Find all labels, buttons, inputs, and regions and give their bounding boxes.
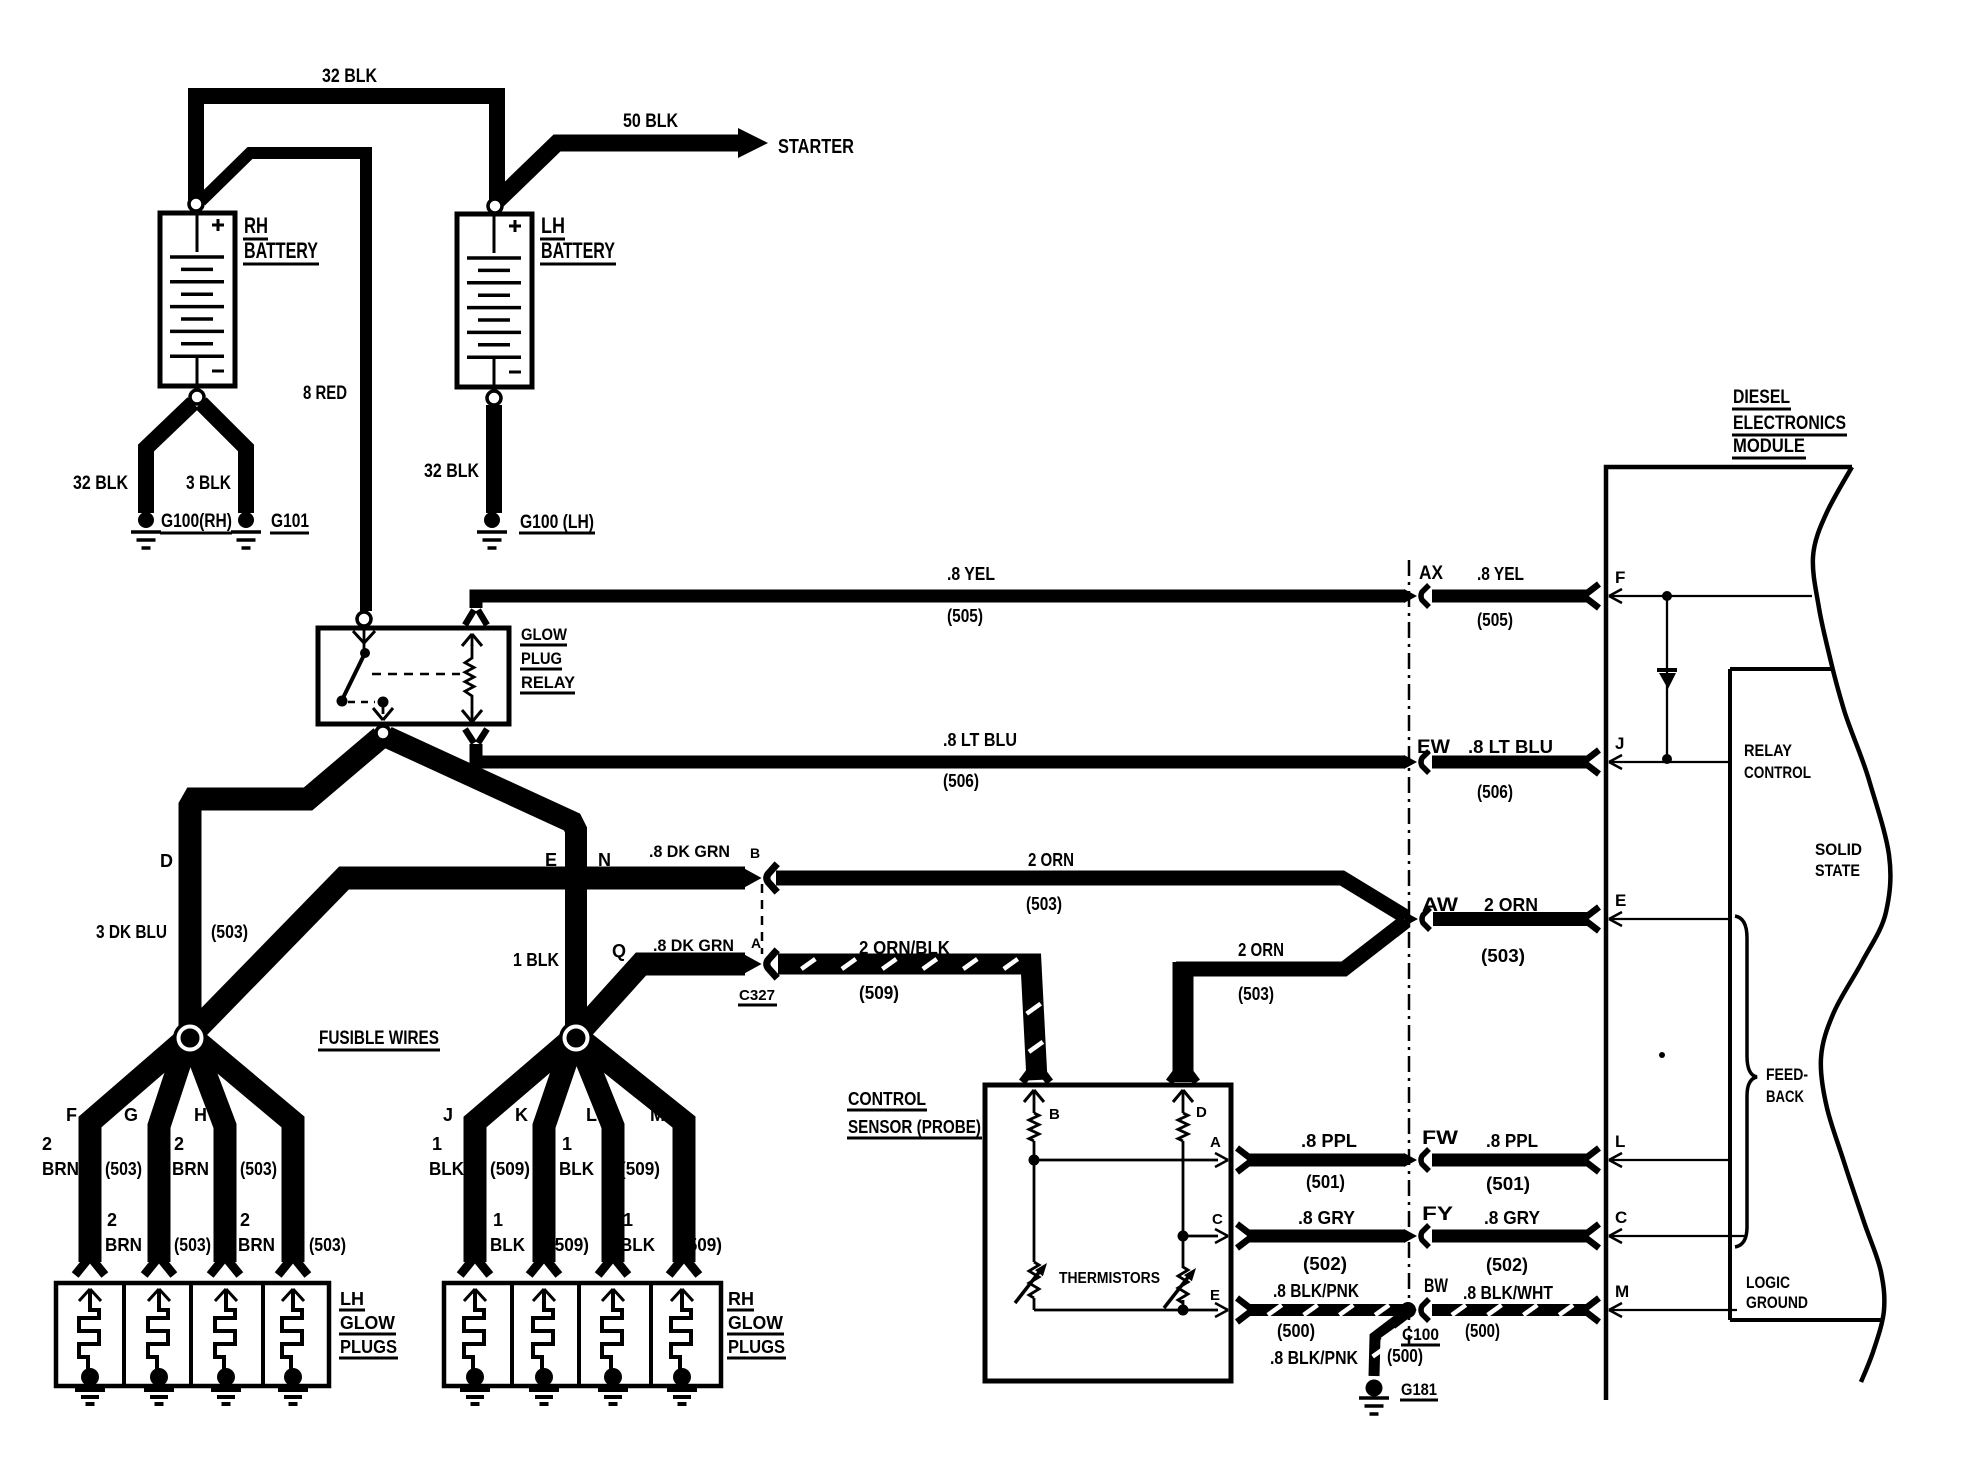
svg-text:THERMISTORS: THERMISTORS	[1059, 1270, 1160, 1287]
wire fusible leg L	[580, 1044, 613, 1262]
svg-text:.8 LT BLU: .8 LT BLU	[1468, 737, 1553, 757]
glow plug RH 3	[602, 1289, 613, 1301]
node J junction	[1662, 754, 1672, 764]
terminal RH battery positive	[189, 197, 203, 211]
svg-text:RH: RH	[244, 213, 268, 238]
svg-text:(503): (503)	[211, 922, 248, 942]
wire 8 RED	[201, 153, 366, 611]
wire relay output right arm	[387, 737, 576, 1032]
svg-text:1: 1	[493, 1210, 503, 1230]
module pin M arrow	[1609, 1303, 1622, 1310]
svg-text:LH: LH	[340, 1289, 364, 1309]
wire .8 GRY right	[1432, 1230, 1588, 1243]
svg-text:1: 1	[623, 1210, 633, 1230]
connector BW	[1404, 1303, 1417, 1317]
svg-text:(503): (503)	[1238, 984, 1274, 1004]
svg-text:B: B	[1049, 1106, 1060, 1123]
stray mark	[1659, 1052, 1665, 1058]
svg-text:3 DK BLU: 3 DK BLU	[96, 922, 167, 942]
feedback brace	[1735, 916, 1757, 1247]
svg-text:2 ORN: 2 ORN	[1238, 940, 1284, 960]
svg-text:BW: BW	[1424, 1276, 1448, 1297]
svg-text:.8 DK GRN: .8 DK GRN	[653, 936, 734, 955]
wire .8 DK GRN E-N to B	[190, 878, 745, 1036]
ground G101	[238, 512, 254, 528]
svg-text:RH: RH	[728, 1289, 754, 1309]
svg-text:50 BLK: 50 BLK	[623, 111, 678, 132]
glow plug RH 2	[533, 1289, 544, 1301]
node star junction LH	[173, 1021, 207, 1055]
glow plug RH 4	[671, 1289, 682, 1301]
probe input arrow D	[1173, 1090, 1183, 1102]
svg-text:(503): (503)	[309, 1235, 346, 1255]
wire .8 YEL left	[476, 596, 1405, 608]
svg-text:G101: G101	[271, 511, 309, 532]
glow plug RH 1	[464, 1289, 475, 1301]
svg-text:E: E	[545, 850, 557, 870]
solid state box	[1730, 667, 1832, 671]
svg-text:(505): (505)	[1477, 610, 1513, 630]
glow plug LH 3	[215, 1289, 226, 1301]
connector EW	[1404, 755, 1417, 769]
svg-text:C: C	[1212, 1211, 1223, 1228]
svg-text:.8 BLK/PNK: .8 BLK/PNK	[1270, 1348, 1358, 1368]
node probe E junction	[1178, 1305, 1189, 1316]
svg-text:H: H	[194, 1105, 207, 1125]
svg-text:SENSOR (PROBE): SENSOR (PROBE)	[848, 1117, 981, 1137]
svg-text:.8 YEL: .8 YEL	[947, 564, 995, 584]
svg-text:J: J	[1615, 734, 1624, 753]
svg-text:(501): (501)	[1486, 1174, 1530, 1194]
wire fusible leg K	[544, 1044, 572, 1262]
svg-text:(502): (502)	[1486, 1255, 1528, 1275]
probe resistor D	[1178, 1113, 1188, 1141]
svg-text:PLUGS: PLUGS	[340, 1337, 397, 1357]
svg-text:MODULE: MODULE	[1733, 436, 1805, 457]
terminal relay pin top-left	[357, 612, 371, 626]
svg-text:BLK: BLK	[490, 1235, 525, 1255]
svg-text:RELAY: RELAY	[1744, 741, 1793, 760]
connector A of C327	[745, 955, 762, 973]
relay coil	[465, 644, 474, 713]
svg-text:A: A	[751, 935, 761, 951]
wire 2 ORN right	[1433, 912, 1588, 926]
wire .8 LT BLU right	[1432, 756, 1588, 769]
relay switch contact 2	[378, 697, 389, 708]
dashed line C100 boundary	[1408, 560, 1411, 1345]
svg-text:DIESEL: DIESEL	[1733, 387, 1790, 408]
svg-text:M: M	[1615, 1282, 1629, 1301]
terminal RH battery negative	[190, 390, 204, 404]
svg-text:GLOW: GLOW	[521, 625, 568, 644]
svg-text:EW: EW	[1417, 737, 1450, 758]
probe input arrow B	[1024, 1090, 1034, 1102]
battery LH	[457, 214, 532, 387]
svg-text:2 ORN/BLK: 2 ORN/BLK	[859, 938, 950, 958]
svg-text:CONTROL: CONTROL	[1744, 763, 1811, 782]
wire 2 ORN/BLK hatched	[778, 964, 1037, 1080]
wire fusible leg G	[159, 1044, 186, 1262]
relay switch arrow in	[353, 631, 364, 643]
svg-text:.8 DK GRN: .8 DK GRN	[649, 842, 730, 861]
probe line B lower	[1033, 1298, 1036, 1310]
svg-text:B: B	[750, 845, 760, 861]
svg-text:L: L	[586, 1105, 597, 1125]
svg-text:3 BLK: 3 BLK	[186, 473, 231, 494]
wire .8 BLK/PNK to G181 hatched	[1374, 1312, 1408, 1376]
svg-text:(502): (502)	[1303, 1254, 1347, 1274]
node F junction	[1662, 591, 1672, 601]
svg-text:ELECTRONICS: ELECTRONICS	[1733, 413, 1846, 434]
svg-text:BRN: BRN	[105, 1235, 142, 1255]
svg-text:STATE: STATE	[1815, 861, 1860, 880]
connector B of C327	[745, 869, 762, 887]
svg-text:G100 (LH): G100 (LH)	[520, 512, 594, 533]
probe line E out	[1034, 1309, 1218, 1312]
node probe C junction	[1178, 1231, 1189, 1242]
svg-text:(501): (501)	[1306, 1172, 1345, 1192]
svg-text:Q: Q	[612, 941, 626, 961]
terminal LH battery positive	[488, 199, 502, 213]
svg-text:32 BLK: 32 BLK	[424, 461, 479, 482]
svg-text:G100(RH): G100(RH)	[161, 511, 232, 532]
module pin L arrow	[1609, 1153, 1622, 1160]
terminal LH battery negative	[487, 391, 501, 405]
connector AW	[1405, 912, 1418, 926]
svg-text:(509): (509)	[490, 1159, 530, 1179]
svg-text:1: 1	[562, 1134, 572, 1154]
svg-text:32 BLK: 32 BLK	[73, 473, 128, 494]
svg-text:2 ORN: 2 ORN	[1028, 850, 1074, 870]
wire 2 ORN from probe D	[1173, 962, 1194, 1082]
svg-text:BLK: BLK	[559, 1159, 594, 1179]
wire fusible leg H	[194, 1044, 225, 1262]
wire 32 BLK to G100(LH)	[486, 405, 502, 513]
relay pin top-right fishtail	[465, 610, 474, 625]
svg-text:FUSIBLE WIRES: FUSIBLE WIRES	[319, 1028, 439, 1049]
svg-text:CONTROL: CONTROL	[848, 1089, 926, 1109]
ground G181	[1366, 1380, 1383, 1397]
svg-text:.8 BLK/WHT: .8 BLK/WHT	[1463, 1283, 1553, 1303]
wire .8 GRY left	[1237, 1224, 1250, 1234]
thermistor right	[1178, 1267, 1188, 1303]
wire 3 BLK to G101	[201, 403, 246, 513]
svg-text:BRN: BRN	[42, 1159, 79, 1179]
probe line C out	[1183, 1235, 1218, 1238]
relay switch contact	[360, 648, 370, 658]
module pin E arrow	[1609, 912, 1622, 919]
wire .8 BLK/PNK hatched	[1237, 1298, 1250, 1308]
wire .8 DK GRN Q to A	[576, 964, 745, 1036]
svg-text:32 BLK: 32 BLK	[322, 66, 377, 87]
svg-text:GROUND: GROUND	[1746, 1293, 1808, 1312]
svg-text:(509): (509)	[620, 1159, 660, 1179]
svg-text:(500): (500)	[1387, 1346, 1423, 1366]
svg-text:SOLID: SOLID	[1815, 840, 1862, 859]
wire 32 BLK to G100(RH)	[146, 403, 193, 513]
svg-text:(509): (509)	[682, 1235, 722, 1255]
connector FW	[1404, 1153, 1417, 1167]
module pin J arrow	[1609, 755, 1622, 762]
svg-text:GLOW: GLOW	[340, 1313, 395, 1333]
relay box glow plug relay	[318, 628, 509, 724]
wire fusible leg M	[579, 1038, 684, 1262]
svg-text:D: D	[1196, 1104, 1207, 1121]
module outline left+top	[1606, 467, 1852, 1400]
svg-text:D: D	[160, 851, 173, 871]
wire fusible leg I	[193, 1038, 293, 1262]
svg-text:LOGIC: LOGIC	[1746, 1273, 1790, 1292]
svg-text:2: 2	[107, 1210, 117, 1230]
svg-text:FY: FY	[1422, 1204, 1453, 1225]
svg-text:.8 BLK/PNK: .8 BLK/PNK	[1273, 1281, 1359, 1301]
connector AX	[1404, 589, 1417, 603]
svg-text:(503): (503)	[1481, 946, 1525, 966]
svg-text:.8 GRY: .8 GRY	[1484, 1208, 1540, 1228]
svg-text:.8 LT BLU: .8 LT BLU	[943, 730, 1017, 750]
probe line B	[1033, 1141, 1036, 1262]
svg-text:1: 1	[432, 1134, 442, 1154]
relay dashed link	[372, 673, 460, 676]
relay pin bottom-right fishtail	[465, 729, 474, 743]
svg-text:FW: FW	[1422, 1128, 1458, 1149]
glow plug LH 2	[148, 1289, 159, 1301]
wire 2 ORN from B	[776, 878, 1406, 917]
svg-text:2: 2	[42, 1134, 52, 1154]
probe wire D fishtail	[1169, 1067, 1180, 1082]
svg-text:FEED-: FEED-	[1766, 1065, 1808, 1084]
svg-text:A: A	[1210, 1134, 1221, 1151]
svg-text:BATTERY: BATTERY	[244, 238, 318, 263]
wire .8 PPL right	[1432, 1154, 1588, 1167]
module pin C arrow	[1609, 1229, 1622, 1236]
svg-text:(500): (500)	[1277, 1321, 1315, 1341]
wire .8 BLK/WHT hatched	[1432, 1304, 1588, 1316]
svg-text:E: E	[1210, 1287, 1220, 1304]
svg-text:BATTERY: BATTERY	[541, 238, 615, 263]
svg-text:2 ORN: 2 ORN	[1484, 895, 1538, 915]
ground G100(LH)	[484, 512, 500, 528]
wire .8 PPL left	[1237, 1148, 1250, 1158]
component box LH glow plugs	[56, 1283, 329, 1386]
svg-text:PLUGS: PLUGS	[728, 1337, 785, 1357]
module torn right edge	[1813, 467, 1891, 1382]
node probe A junction	[1029, 1155, 1040, 1166]
svg-text:AX: AX	[1419, 563, 1443, 584]
svg-text:(506): (506)	[943, 771, 979, 791]
svg-text:E: E	[1615, 891, 1626, 910]
terminal relay pin bottom-left	[376, 726, 390, 740]
glow plug LH 1	[79, 1289, 90, 1301]
svg-text:BACK: BACK	[1766, 1087, 1805, 1106]
glow plug LH 4	[282, 1289, 293, 1301]
svg-text:BLK: BLK	[620, 1235, 655, 1255]
svg-text:PLUG: PLUG	[521, 649, 562, 668]
svg-text:8 RED: 8 RED	[303, 383, 347, 404]
svg-text:(503): (503)	[174, 1235, 211, 1255]
svg-text:LH: LH	[541, 213, 565, 238]
svg-text:(509): (509)	[549, 1235, 589, 1255]
svg-text:.8 PPL: .8 PPL	[1301, 1131, 1357, 1151]
svg-text:N: N	[598, 850, 611, 870]
relay switch arrow out	[382, 702, 385, 714]
component box control sensor probe	[985, 1085, 1231, 1381]
svg-text:RELAY: RELAY	[521, 673, 576, 692]
diode CR1	[1666, 596, 1668, 759]
svg-text:.8 PPL: .8 PPL	[1486, 1131, 1538, 1151]
svg-text:G: G	[124, 1105, 138, 1125]
svg-text:BRN: BRN	[172, 1159, 209, 1179]
component box RH glow plugs	[444, 1283, 721, 1386]
relay switch lever	[342, 653, 365, 700]
wire relay output left arm D	[190, 737, 381, 1032]
svg-text:M: M	[650, 1105, 665, 1125]
svg-text:BLK: BLK	[429, 1159, 464, 1179]
svg-text:F: F	[1615, 568, 1625, 587]
svg-text:.8 YEL: .8 YEL	[1477, 564, 1524, 584]
svg-text:(503): (503)	[1026, 894, 1062, 914]
ground G100(RH)	[138, 512, 154, 528]
svg-text:(503): (503)	[240, 1159, 277, 1179]
svg-text:(500): (500)	[1465, 1321, 1500, 1341]
probe wire B fishtail	[1022, 1067, 1033, 1082]
probe resistor B	[1029, 1113, 1039, 1141]
svg-text:K: K	[515, 1105, 528, 1125]
wire .8 YEL right	[1432, 590, 1588, 603]
wire 50 BLK to starter	[497, 143, 741, 201]
terminal relay pin bottom-left overlay	[376, 726, 390, 740]
svg-text:J: J	[443, 1105, 453, 1125]
svg-text:C100: C100	[1402, 1325, 1439, 1344]
connector FY	[1404, 1229, 1417, 1243]
svg-text:STARTER: STARTER	[778, 136, 854, 158]
svg-text:(509): (509)	[859, 983, 899, 1003]
svg-text:L: L	[1615, 1132, 1625, 1151]
svg-text:.8 GRY: .8 GRY	[1298, 1208, 1355, 1228]
wire .8 LT BLU left	[476, 745, 1405, 762]
probe line D	[1182, 1141, 1185, 1268]
svg-text:C: C	[1615, 1208, 1627, 1227]
svg-text:(506): (506)	[1477, 782, 1513, 802]
dashed line connector C327	[761, 884, 764, 954]
svg-text:(505): (505)	[947, 606, 983, 626]
svg-text:1 BLK: 1 BLK	[513, 950, 559, 970]
svg-text:I: I	[277, 1105, 282, 1125]
svg-text:(503): (503)	[105, 1159, 142, 1179]
wire fusible leg J	[475, 1038, 573, 1262]
wire fusible leg F	[90, 1038, 187, 1262]
probe line A out	[1034, 1159, 1218, 1162]
module pin F arrow	[1609, 589, 1622, 596]
svg-text:F: F	[66, 1105, 77, 1125]
svg-text:C327: C327	[739, 987, 775, 1004]
svg-text:G181: G181	[1401, 1380, 1437, 1399]
wire 32 BLK battery jumper	[196, 96, 497, 200]
svg-text:BRN: BRN	[238, 1235, 275, 1255]
svg-text:2: 2	[174, 1134, 184, 1154]
svg-text:2: 2	[240, 1210, 250, 1230]
thermistor left	[1029, 1262, 1039, 1298]
node star junction RH	[559, 1021, 593, 1055]
svg-text:GLOW: GLOW	[728, 1313, 783, 1333]
battery RH	[160, 213, 235, 386]
